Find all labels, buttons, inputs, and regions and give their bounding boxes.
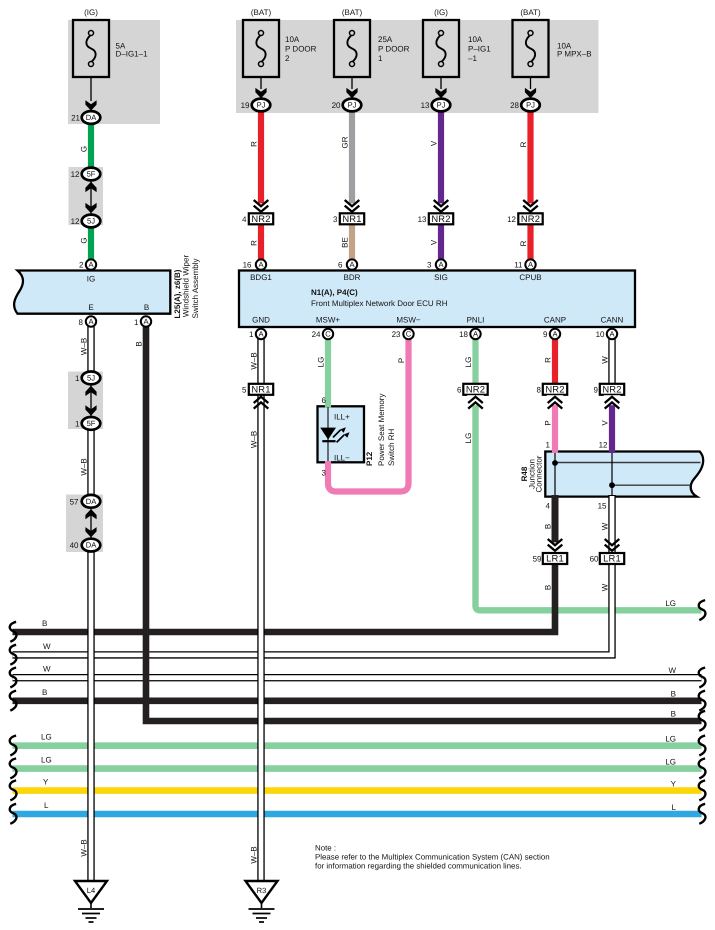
transition chevron SIG [433,203,450,213]
wire R from ECU pin 9 CANP to NR2 [552,338,558,385]
connector 20 PJ [343,99,362,112]
svg-text:1: 1 [249,330,254,339]
svg-text:4: 4 [546,502,551,511]
wire W-B from connector 5F to connector DA 57 [87,428,94,497]
in-line connector shading DA/DA [66,495,103,553]
svg-text:L: L [672,803,677,812]
svg-text:ILL+: ILL+ [334,413,350,422]
svg-text:Power Seat Memory: Power Seat Memory [377,394,386,466]
R48 junction dot CANP [552,460,558,466]
svg-text:24: 24 [312,330,321,339]
svg-text:NR2: NR2 [251,213,270,224]
svg-text:V: V [429,140,438,146]
connector 12 5J [82,215,101,228]
wire break left W [10,645,17,665]
transition chevron CANN LR1 [605,539,620,551]
svg-text:B: B [42,619,47,628]
windshield wiper switch assembly L25(A), z6(B) box [14,271,170,314]
svg-text:GR: GR [340,136,349,148]
svg-text:Windshield Wiper: Windshield Wiper [182,255,191,318]
svg-text:5: 5 [242,385,247,394]
wire B bus from LR1 59 to left edge [13,562,556,632]
connector 1 5F [82,417,101,430]
svg-text:Note :: Note : [315,844,336,853]
svg-text:9: 9 [594,385,599,394]
svg-text:Please refer to the Multiplex: Please refer to the Multiplex Communicat… [315,853,550,862]
R48 internal bus line (CANN side) [612,484,691,486]
svg-text:13: 13 [421,101,430,110]
svg-text:LG: LG [665,735,676,744]
svg-text:DA: DA [86,541,97,550]
svg-text:P MPX–B: P MPX–B [557,50,592,59]
wire W-B from ECU GND pin 1 down to ground R3 [257,339,264,882]
svg-text:5J: 5J [87,217,95,226]
svg-text:2: 2 [285,54,290,63]
ground L4 [75,881,107,922]
svg-text:BE: BE [340,237,349,248]
svg-text:NR2: NR2 [545,384,564,395]
wire LG bus full width (lower) [13,765,702,772]
svg-text:NR2: NR2 [466,384,485,395]
svg-text:GND: GND [252,316,270,325]
svg-text:LG: LG [464,433,473,444]
svg-text:18: 18 [459,330,468,339]
svg-text:PJ: PJ [437,101,446,110]
svg-text:40: 40 [70,541,79,550]
fuse 10A P-IG1-1 [423,20,459,77]
svg-text:10: 10 [596,330,605,339]
svg-text:10A: 10A [285,35,300,44]
wire break right LG PNLI [699,600,706,620]
wire LG bus full width (upper) [13,742,702,749]
svg-text:Front Multiplex Network Door E: Front Multiplex Network Door ECU RH [311,299,448,308]
svg-text:LR1: LR1 [546,553,564,564]
svg-text:W: W [600,356,609,364]
transition chevron PNLI [467,395,484,405]
svg-text:1: 1 [75,419,80,428]
pin 9 A ECU CANP [550,329,560,339]
pin 1 A ECU GND [256,329,266,339]
power seat memory switch P12 box [318,406,365,462]
svg-text:IG: IG [87,275,95,284]
arrows between DA and DA [90,507,92,539]
svg-text:(IG): (IG) [84,8,98,17]
connector 59 LR1 [543,553,567,564]
wire W from ECU pin 10 CANN to NR2 [608,338,615,385]
svg-text:60: 60 [590,555,599,564]
svg-text:3: 3 [333,215,338,224]
svg-text:PJ: PJ [526,101,535,110]
svg-text:25A: 25A [378,35,393,44]
wire fuse D-IG1-1 lead [90,77,92,101]
wire V from NR2 to R48 pin 12 [609,394,615,453]
front multiplex network door ECU RH N1(A),P4(C) box [239,271,635,328]
svg-text:NR1: NR1 [342,213,361,224]
wire fuse P DOOR 2 lead [260,77,262,89]
svg-text:R: R [519,141,528,147]
svg-text:12: 12 [71,170,80,179]
svg-text:D–IG1–1: D–IG1–1 [116,50,149,59]
pin 11 A ECU [525,259,535,269]
svg-text:PNLI: PNLI [467,316,485,325]
wire R from NR2 to ECU pin 16 BDG1 [258,222,264,261]
svg-text:12: 12 [71,217,80,226]
svg-text:23: 23 [392,330,401,339]
svg-text:for information regarding the: for information regarding the shielded c… [315,862,522,871]
transition chevron CPUB [522,203,539,213]
transition chevron CANP [547,395,564,405]
svg-text:19: 19 [241,101,250,110]
pin 10 A ECU CANN [607,329,617,339]
svg-text:LG: LG [316,357,325,368]
svg-text:(BAT): (BAT) [251,8,272,17]
wire break right B [699,691,706,711]
svg-text:Connector: Connector [535,455,544,492]
wire break left W2 [10,668,17,688]
wire W bus full width [13,674,702,681]
svg-text:B: B [42,688,47,697]
svg-text:W–B: W–B [79,338,88,355]
pin 18 A ECU PNLI [470,329,480,339]
R48 internal bus line (CANP side) [555,462,701,464]
svg-text:16: 16 [243,261,252,270]
fuse 10A P DOOR 2 [243,20,279,77]
svg-text:R: R [249,141,258,147]
svg-text:LG: LG [41,733,52,742]
pin 24 C ECU MSW+ [323,329,333,339]
svg-text:2: 2 [79,261,84,270]
connector 9 NR2 [600,384,624,395]
ground R3 [246,881,278,922]
svg-text:R: R [249,240,258,246]
svg-text:(IG): (IG) [434,8,448,17]
svg-text:9: 9 [543,330,548,339]
junction block shading (BAT/IG fuses P DOOR 2, P DOOR 1, P-IG1-1, P MPX-B) [236,20,599,113]
svg-text:B: B [144,303,149,312]
wire B from R48 pin 4 to LR1 59 [552,495,559,558]
svg-text:(BAT): (BAT) [520,8,541,17]
pin 16 A ECU [256,259,266,269]
svg-text:21: 21 [71,114,80,123]
svg-text:N1(A), P4(C): N1(A), P4(C) [311,288,358,297]
svg-text:MSW−: MSW− [396,316,421,325]
wire R from fuse P DOOR 2 connector PJ to NR2 [258,109,264,215]
transition chevron BDR [344,203,361,213]
svg-text:P12: P12 [365,451,374,466]
svg-text:ILL−: ILL− [334,453,350,462]
pin 8 A wiper switch [86,316,96,326]
wire W from R48 pin 15 to LR1 60 [608,495,615,558]
svg-text:PJ: PJ [348,101,357,110]
svg-text:LG: LG [665,599,676,608]
svg-text:LG: LG [41,756,52,765]
svg-text:B: B [543,524,552,529]
fuse 5A D-IG1-1 [73,20,109,77]
svg-text:E: E [88,303,93,312]
svg-text:NR2: NR2 [431,213,450,224]
connector 40 DA [82,539,101,552]
wire break left B2 [10,691,17,711]
svg-text:20: 20 [332,101,341,110]
R48 internal pin line 1-4 [554,452,556,497]
pin 2 A wiper switch [86,259,96,269]
wire L bus full width [13,811,702,818]
wire W bus from LR1 60 to left edge [13,562,613,655]
svg-text:B: B [135,341,144,346]
wire break right W [699,668,706,688]
wire G from fuse D-IG1-1 connector DA to 5F [88,120,94,172]
svg-text:LG: LG [665,758,676,767]
connector 5 NR1 [249,384,273,395]
svg-text:28: 28 [510,101,519,110]
svg-text:NR2: NR2 [602,384,621,395]
svg-text:NR2: NR2 [521,213,540,224]
wire Y bus full width [13,787,702,794]
wire LG from PNLI pin 18 via NR2 to right edge [476,395,702,610]
svg-text:R: R [543,357,552,363]
svg-text:CANP: CANP [544,316,566,325]
pin 6 A ECU [347,259,357,269]
svg-text:W: W [600,522,609,530]
R48 junction dot CANN [609,482,615,488]
svg-text:CANN: CANN [601,316,624,325]
svg-text:BDG1: BDG1 [250,273,272,282]
wire fuse P DOOR 1 lead [351,77,353,89]
connector 8 NR2 [543,384,567,395]
svg-text:W–B: W–B [79,839,88,856]
svg-text:11: 11 [514,261,523,270]
svg-text:59: 59 [533,555,542,564]
wire W-B from wiper switch pin 8 (E) to connector 5J [87,326,94,374]
svg-text:P–IG1: P–IG1 [468,45,491,54]
svg-text:8: 8 [79,318,84,327]
svg-text:CPUB: CPUB [519,273,541,282]
transition chevron GND [254,397,269,409]
svg-text:C: C [406,330,412,339]
svg-text:W: W [600,583,609,591]
wire break right LG [699,736,706,756]
svg-text:–1: –1 [468,54,477,63]
svg-text:B: B [671,690,676,699]
connector 60 LR1 [600,553,624,564]
connector 28 PJ [521,99,540,112]
wire break right B2 [699,711,706,731]
svg-text:L: L [44,801,49,810]
svg-text:V: V [429,239,438,245]
svg-text:12: 12 [599,441,608,450]
svg-text:W: W [668,666,676,675]
connector 13 PJ [432,99,451,112]
svg-text:W–B: W–B [249,352,258,369]
svg-text:LG: LG [464,357,473,368]
connector 3 NR1 [340,213,364,224]
connector 21 DA [82,111,101,124]
svg-text:MSW+: MSW+ [316,316,341,325]
svg-text:NR1: NR1 [251,384,270,395]
wire B bus full width [13,697,702,704]
svg-text:13: 13 [418,215,427,224]
arrows between 5J and 5F [90,384,92,417]
connector 19 PJ [252,99,271,112]
svg-text:3: 3 [322,469,327,478]
svg-text:(BAT): (BAT) [342,8,363,17]
wire break right Y [699,780,706,800]
fuse 25A P DOOR 1 [334,20,370,77]
svg-text:W: W [43,665,51,674]
connector 12 NR2 [518,213,542,224]
svg-text:1: 1 [75,374,80,383]
junction connector R48 box [545,452,703,497]
wire LG from ECU pin 18 PNLI to NR2 [472,338,478,385]
svg-text:8: 8 [537,385,542,394]
connector 57 DA [82,495,101,508]
connector 1 5J [82,372,101,385]
svg-text:Y: Y [671,780,677,789]
svg-text:5F: 5F [87,419,96,428]
wire R from NR2 to ECU pin 11 CPUB [527,222,533,261]
svg-text:6: 6 [322,396,327,405]
svg-text:10A: 10A [468,35,483,44]
svg-text:P: P [543,420,552,425]
wire BE from NR1 to ECU pin 6 BDR [349,222,355,261]
svg-text:B: B [671,710,676,719]
transition chevron CANP LR1 [547,542,564,552]
fuse 10A P MPX-B [513,20,549,77]
wire fuse P-IG1-1 lead [440,77,442,89]
svg-text:LR1: LR1 [603,553,621,564]
wire P loop from P12 pin 3 to ECU pin 23 MSW- [328,338,409,492]
connector 12 5F [82,168,101,181]
svg-text:3: 3 [427,261,432,270]
wire break left L [10,804,17,824]
svg-text:G: G [79,146,88,152]
connector 4 NR2 [249,213,273,224]
svg-text:12: 12 [507,215,516,224]
svg-text:W: W [43,642,51,651]
pin 3 A ECU [436,259,446,269]
pin 23 C ECU MSW- [403,329,413,339]
svg-text:1: 1 [378,54,383,63]
svg-text:BDR: BDR [344,273,361,282]
LED lamp in P12 [327,407,329,461]
svg-text:P DOOR: P DOOR [285,45,317,54]
svg-text:C: C [325,330,331,339]
svg-text:W–B: W–B [249,846,258,863]
wire break left LG2 [10,758,17,778]
svg-text:R3: R3 [257,886,267,895]
wire B from wiper switch pin 1 (B) down and to right edge [146,326,702,721]
wire break right LG2 [699,758,706,778]
wire break left LG [10,736,17,756]
svg-text:4: 4 [242,215,247,224]
in-line connector shading 5F/5J (upper) [69,167,104,225]
svg-text:1: 1 [546,441,551,450]
wire GR from fuse P DOOR 1 connector PJ to NR1 [349,109,355,215]
svg-text:Y: Y [43,778,49,787]
svg-text:P: P [397,358,406,363]
wire P from NR2 to R48 pin 1 [552,394,558,453]
svg-text:15: 15 [598,502,607,511]
in-line connector shading 5J/5F (middle) [68,372,103,430]
wire break right L [699,804,706,824]
svg-text:R: R [519,240,528,246]
wire break left B [10,622,17,642]
svg-text:B: B [543,585,552,590]
svg-text:Switch RH: Switch RH [387,428,396,466]
transition chevron BDG1 [253,203,270,213]
wire break left Y [10,780,17,800]
svg-text:P DOOR: P DOOR [378,45,410,54]
R48 internal pin line 12-15 [611,452,613,497]
connector 6 NR2 [463,384,487,395]
svg-text:1: 1 [134,318,139,327]
svg-text:W–B: W–B [79,458,88,475]
svg-text:SIG: SIG [434,273,448,282]
svg-text:G: G [79,237,88,243]
svg-text:6: 6 [457,385,462,394]
svg-text:DA: DA [86,113,97,122]
svg-text:57: 57 [70,497,79,506]
svg-text:PJ: PJ [257,101,266,110]
connector 13 NR2 [429,213,453,224]
arrows between 5F and 5J [90,180,92,215]
svg-text:L4: L4 [87,886,95,895]
wire V from fuse P-IG1-1 connector PJ to NR2 [438,109,444,215]
pin 1 A wiper switch [141,316,151,326]
wire V from NR2 to ECU pin 3 SIG [438,222,444,261]
svg-text:V: V [600,420,609,426]
svg-text:6: 6 [338,261,343,270]
wire R from fuse P MPX-B connector PJ to NR2 [527,109,533,215]
junction block shading (IG fuse D-IG1-1) [68,20,160,124]
wire fuse P MPX-B lead [530,77,532,89]
wire LG from ECU pin 24 MSW+ to P12 pin 6 [325,338,331,408]
svg-text:5J: 5J [87,373,95,382]
wire W-B from connector DA 40 down to ground L4 [87,550,94,882]
svg-text:5F: 5F [87,170,96,179]
svg-text:DA: DA [86,497,97,506]
svg-text:W–B: W–B [249,431,258,448]
wire G from 5J to wiper switch pin 2 [88,223,94,262]
transition chevron CANN [604,395,621,405]
svg-text:Switch Assembly: Switch Assembly [191,258,200,318]
